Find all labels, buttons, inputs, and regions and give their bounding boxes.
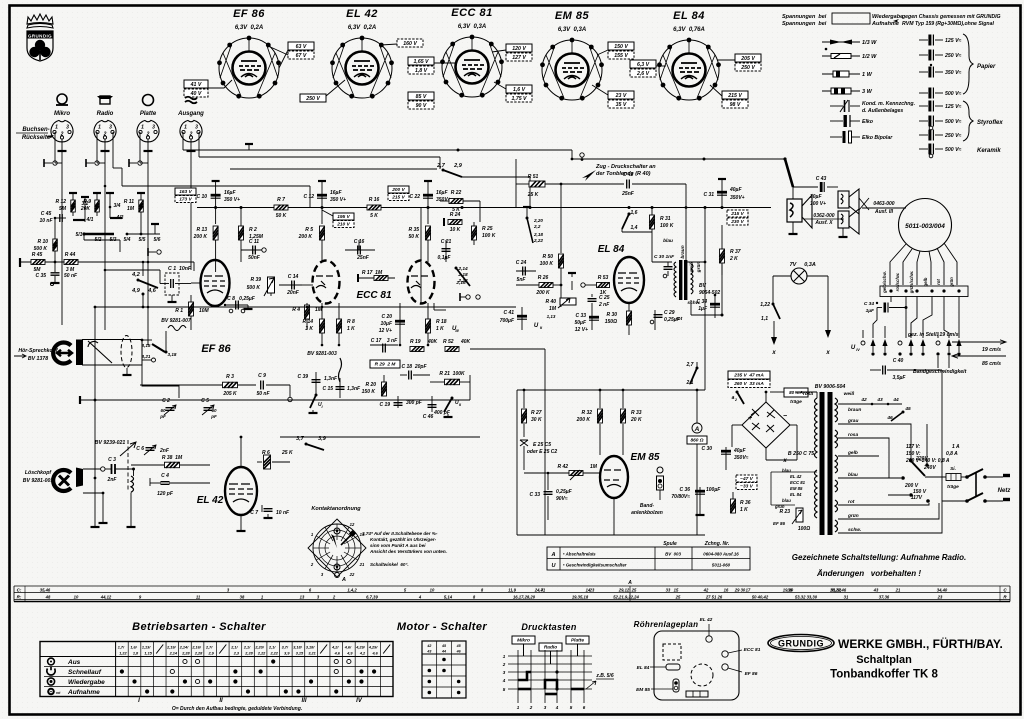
voltage box 163V/173V [175, 188, 196, 195]
icon Ausgang output [185, 97, 197, 104]
svg-text:C 22: C 22 [409, 194, 420, 200]
wire EM 85 to 150V box [597, 50, 608, 55]
resistor R42 1M [569, 471, 583, 476]
voltage boxes 120V/127V at ECC 81 [506, 44, 532, 52]
svg-text:R 16: R 16 [369, 197, 380, 203]
svg-text:EL 42: EL 42 [346, 8, 378, 20]
svg-text:R 19: R 19 [410, 339, 421, 345]
head Loeschkopf [53, 470, 71, 491]
svg-text:43: 43 [426, 650, 431, 654]
svg-text:4,2: 4,2 [359, 652, 366, 656]
svg-text:Ansicht des Verstärkers von un: Ansicht des Verstärkers von unten. [369, 549, 447, 554]
icon Platte record [143, 95, 154, 106]
svg-text:200 K: 200 K [576, 417, 591, 423]
legend Wiedergabe/Aufnahme box [832, 13, 870, 24]
socket Radio [94, 120, 116, 142]
svg-text:1M: 1M [127, 206, 135, 212]
capacitor C24 5nF [516, 270, 536, 272]
terminal on top bus [245, 144, 253, 150]
svg-text:1,65 V: 1,65 V [414, 59, 430, 65]
voltage box 63V/67V at EF 86 [288, 42, 314, 50]
bridge rectifier B250C75 [742, 402, 790, 448]
svg-text:3,74* Auf der II.Schaltebene d: 3,74* Auf der II.Schaltebene der %- [362, 531, 438, 536]
svg-text:31: 31 [844, 595, 849, 600]
capacitor C22 16uF 350V~ [427, 183, 429, 224]
svg-text:195 V: 195 V [337, 214, 350, 220]
svg-text:R 31: R 31 [660, 216, 671, 222]
resistor R50 100K [560, 184, 562, 253]
resistor R53 1K cathode EL84 [597, 283, 610, 288]
svg-text:2,28: 2,28 [181, 652, 190, 656]
ground at left speaker [792, 222, 794, 231]
Drucktasten button Platte [566, 636, 589, 644]
svg-text:gez. in Stell. 19 cm/s: gez. in Stell. 19 cm/s [907, 332, 959, 338]
resistor R2 1,25M [240, 208, 242, 263]
svg-text:4/1: 4/1 [86, 217, 94, 223]
svg-text:11,9: 11,9 [508, 588, 517, 593]
wire cathode bus y349 [470, 348, 545, 350]
svg-text:1,6/: 1,6/ [130, 646, 137, 650]
svg-text:52,21,9,22,24: 52,21,9,22,24 [613, 595, 639, 600]
svg-text:B 250 C 75: B 250 C 75 [788, 451, 814, 457]
svg-text:−47 V: −47 V [740, 476, 753, 482]
svg-text:3,7/: 3,7/ [282, 646, 289, 650]
wire Ausgang pin1 down [182, 132, 184, 150]
svg-text:125 V≈: 125 V≈ [945, 104, 962, 110]
svg-text:350V+: 350V+ [730, 195, 745, 201]
svg-text:C 40: C 40 [893, 358, 904, 364]
svg-text:1,22: 1,22 [119, 652, 127, 656]
Drucktasten thick contact traces [518, 672, 531, 680]
speaker left with coil [787, 195, 812, 228]
mains switch link [975, 473, 977, 497]
wire ECC 81 to 1,6V box [494, 82, 506, 89]
svg-text:BV 9006-504: BV 9006-504 [815, 384, 846, 390]
capacitor C33 0,25uF 90V~ [547, 473, 549, 490]
Roehrenlageplan chassis outline [654, 631, 739, 700]
svg-text:43: 43 [873, 588, 879, 593]
svg-text:2,9: 2,9 [453, 163, 463, 169]
output transformer BV 9054-502 [679, 260, 682, 300]
head core [76, 340, 83, 366]
legend capacitor 500 V~ Keramik [919, 144, 943, 155]
svg-text:350V+: 350V+ [436, 197, 451, 203]
svg-text:125 V≈: 125 V≈ [945, 38, 962, 44]
capacitor C14 20nF [279, 284, 302, 286]
svg-text:C 20: C 20 [381, 314, 392, 320]
svg-text:2: 2 [502, 662, 506, 667]
svg-text:25nF: 25nF [621, 191, 635, 197]
svg-text:EL 42: EL 42 [197, 495, 224, 506]
svg-text:0,8 A: 0,8 A [946, 451, 958, 457]
capacitor C4 120pF [149, 478, 151, 486]
wire mid bus y270 to C1 [105, 269, 160, 271]
svg-text:EF 86: EF 86 [773, 521, 786, 526]
speaker output III small [838, 209, 859, 234]
svg-text:BV 003: BV 003 [665, 552, 681, 557]
capacitor C1 10nF in shield box [165, 273, 179, 295]
svg-text:3,21: 3,21 [308, 652, 315, 656]
svg-text:Aus: Aus [67, 659, 81, 666]
svg-text:C 33: C 33 [575, 313, 586, 319]
svg-text:C 25: C 25 [599, 295, 610, 301]
svg-text:C 35: C 35 [35, 273, 46, 279]
svg-text:C 3: C 3 [108, 457, 116, 463]
voltage box -47V/-33V [736, 475, 757, 482]
svg-text:C 31: C 31 [703, 192, 714, 198]
svg-text:150Ω: 150Ω [605, 319, 617, 325]
svg-text:• Abschaltrelais: • Abschaltrelais [563, 552, 596, 557]
icon Radio speaker [97, 96, 113, 104]
secondary lead grau to 220V tap [838, 424, 911, 458]
svg-text:2,7/: 2,7/ [205, 646, 213, 650]
voltage boxes 215V/98V at EL 84 [722, 91, 748, 99]
resistor R9 20K [96, 196, 98, 216]
svg-text:16µF: 16µF [436, 190, 448, 196]
svg-text:33: 33 [666, 588, 671, 593]
svg-text:150 V: 150 V [614, 44, 628, 50]
svg-text:R 27: R 27 [531, 410, 542, 416]
svg-text:5/6: 5/6 [154, 237, 161, 243]
legend resistor 1 W [822, 71, 860, 77]
svg-text:23 V: 23 V [615, 93, 627, 99]
resistor R13 200K [213, 226, 218, 240]
svg-text:schw.: schw. [848, 527, 861, 533]
capacitor at Mikro lead [44, 159, 57, 167]
svg-text:44: 44 [892, 397, 899, 403]
svg-text:100 K: 100 K [482, 233, 496, 239]
capacitor C32 50uF 12V+ [591, 308, 593, 330]
svg-text:0604-080 Ausf.16: 0604-080 Ausf.16 [703, 552, 739, 557]
svg-text:Röhrenlageplan: Röhrenlageplan [634, 620, 699, 629]
resistor R1 10M cathode [190, 295, 192, 330]
svg-text:12 V+: 12 V+ [575, 327, 588, 333]
Drucktasten button Radio [539, 643, 562, 651]
svg-text:200 V: 200 V [391, 187, 405, 193]
svg-text:EF 86: EF 86 [745, 671, 758, 677]
svg-text:EF 86: EF 86 [201, 343, 231, 355]
wire transformer bottom rot lead [690, 300, 692, 315]
svg-text:Radio: Radio [544, 645, 557, 651]
erase head coil [131, 476, 134, 492]
wire second bus y169 [199, 156, 440, 158]
svg-text:48: 48 [45, 595, 51, 600]
svg-text:C 36: C 36 [679, 487, 690, 493]
svg-text:29,12: 29,12 [618, 588, 630, 593]
svg-text:C 17: C 17 [371, 338, 382, 344]
capacitor C19 300pF [397, 396, 399, 408]
svg-text:1,8: 1,8 [133, 652, 139, 656]
svg-text:Band-: Band- [640, 503, 655, 509]
capacitor C39 1,3nF [315, 372, 317, 395]
svg-text:40µF: 40µF [729, 187, 742, 193]
icon Mikro microphone [56, 94, 68, 105]
legend resistor 1/2 W [822, 54, 860, 59]
legend capacitor 125 V~ Styroflex [919, 101, 943, 112]
svg-text:BV: BV [699, 283, 707, 289]
wire Ausgang pin2 down [190, 152, 192, 270]
svg-text:R 1: R 1 [175, 308, 183, 314]
resistor R16 5K on bus [367, 205, 381, 210]
voltage box 235V 47mA / 260V 33mA [728, 371, 770, 379]
legend capacitor 125 V~ Papier [919, 35, 943, 46]
voltage box 41V/40V at EF 86 [184, 80, 208, 88]
svg-text:15: 15 [674, 588, 679, 593]
svg-text:A: A [694, 426, 700, 433]
svg-text:41 V: 41 V [190, 82, 202, 88]
svg-text:R 30: R 30 [606, 312, 617, 318]
transformer primary winding [815, 398, 818, 458]
svg-text:R 35: R 35 [408, 227, 419, 233]
svg-text:GRUNDIG: GRUNDIG [778, 639, 824, 649]
svg-text:50µF: 50µF [575, 320, 587, 326]
wire power section bottom bus y535 [517, 534, 705, 536]
svg-text:ECC 81: ECC 81 [744, 647, 761, 653]
svg-text:3: 3 [152, 125, 155, 131]
capacitor C29 0,25uF [654, 310, 656, 330]
svg-text:1,13/: 1,13/ [142, 646, 151, 650]
wire x95 vertical long [94, 307, 96, 524]
Roehrenlageplan ECC81 pin [722, 651, 728, 657]
capacitor C43 30uF 100V~ [793, 186, 818, 188]
svg-text:2,20: 2,20 [533, 218, 543, 223]
strip lead weave wires [905, 297, 907, 339]
resistor R5 200K [320, 226, 325, 240]
svg-text:50 nF: 50 nF [64, 273, 78, 279]
table connection dots [183, 659, 187, 663]
svg-text:23: 23 [937, 595, 943, 600]
svg-text:20nF: 20nF [286, 290, 300, 296]
Band-anlenkbolzen symbol [657, 467, 663, 473]
svg-text:50 40,42: 50 40,42 [752, 595, 769, 600]
svg-text:EL 42: EL 42 [790, 474, 802, 479]
svg-text:17: 17 [746, 588, 751, 593]
table Motor-Schalter [422, 641, 466, 698]
heater wires left of transformer [771, 471, 817, 473]
capacitor C25 2nF [588, 299, 597, 302]
wire EL42 anode up [240, 437, 242, 467]
resistor R32 200K [599, 390, 601, 408]
svg-text:BV 9281-007: BV 9281-007 [161, 318, 191, 324]
svg-text:R 42: R 42 [557, 464, 568, 470]
svg-text:500 V≈: 500 V≈ [945, 147, 962, 153]
svg-text:215 V: 215 V [730, 211, 744, 217]
transformer primary feed [816, 392, 818, 398]
resistor R33 20K [622, 390, 624, 408]
svg-text:85 cm/s: 85 cm/s [982, 361, 1001, 367]
svg-text:C 5: C 5 [201, 398, 209, 404]
svg-text:R 10: R 10 [37, 239, 48, 245]
svg-text:860 Ω: 860 Ω [690, 438, 703, 444]
svg-text:2,19/: 2,19/ [166, 646, 176, 650]
tap 117V [926, 499, 930, 503]
svg-text:1/2 W: 1/2 W [862, 54, 877, 60]
svg-text:weiß: weiß [689, 262, 695, 273]
resistor R37 2K [721, 225, 723, 275]
resistor R20 150K [383, 375, 385, 382]
socket Platte [137, 120, 159, 142]
table Betriebsarten-Schalter [40, 642, 393, 697]
svg-text:C 1 10nF: C 1 10nF [168, 266, 192, 272]
svg-text:pF: pF [210, 414, 217, 419]
svg-text:205 V: 205 V [740, 56, 755, 62]
svg-text:235 V 47 mA: 235 V 47 mA [733, 373, 764, 379]
svg-text:53,32 33,30: 53,32 33,30 [795, 595, 818, 600]
terminal dots in strip [889, 289, 892, 292]
svg-text:6,3V 0,3A: 6,3V 0,3A [458, 24, 486, 30]
svg-text:3,9: 3,9 [284, 652, 290, 656]
svg-text:4: 4 [502, 678, 506, 683]
resistor R44 3M [64, 260, 78, 265]
svg-text:Spule: Spule [663, 541, 677, 547]
svg-text:4,2: 4,2 [131, 272, 140, 278]
svg-text:C 19: C 19 [379, 402, 390, 408]
switch a2 power [736, 391, 745, 405]
svg-text:A: A [341, 577, 346, 583]
svg-text:1M: 1M [590, 464, 598, 470]
potentiometer R40 1M [560, 298, 576, 305]
svg-text:50nF: 50nF [248, 255, 261, 261]
resistor R11 1M [140, 196, 142, 234]
svg-text:C 2: C 2 [162, 398, 170, 404]
capacitor C15 1,3nF [339, 378, 341, 398]
wire bus y400 [80, 399, 470, 401]
svg-text:3,18/: 3,18/ [293, 646, 302, 650]
Roehrenlageplan EM85 slot [673, 679, 679, 692]
svg-text:2: 2 [734, 398, 737, 402]
svg-text:Schaltplan: Schaltplan [856, 654, 912, 666]
capacitor C30 40uF 350V~ [721, 450, 731, 454]
svg-text:1 K: 1 K [436, 326, 444, 332]
svg-text:700µF: 700µF [500, 318, 515, 324]
ground at Platte socket [147, 139, 149, 147]
svg-text:16µF: 16µF [224, 190, 236, 196]
svg-text:44,12: 44,12 [100, 595, 112, 600]
tube ECC 81 triode a envelope [313, 261, 340, 304]
svg-text:blau: blau [663, 238, 673, 244]
motor lead wires [890, 244, 906, 285]
svg-text:R:: R: [17, 595, 22, 600]
ring terminal on right bus [580, 153, 584, 157]
svg-text:0463-000: 0463-000 [873, 201, 894, 207]
svg-text:weiß: weiß [844, 391, 855, 397]
svg-text:R 50: R 50 [542, 254, 553, 260]
svg-text:Zchng. Nr.: Zchng. Nr. [704, 541, 729, 547]
svg-text:grün/schw.: grün/schw. [909, 271, 914, 295]
svg-text:1,1: 1,1 [761, 316, 768, 322]
svg-text:Buchsen-: Buchsen- [22, 127, 49, 133]
svg-text:R 21 100K: R 21 100K [439, 371, 465, 377]
resistor R22 5K [449, 199, 463, 204]
svg-text:ECC 81: ECC 81 [451, 7, 493, 19]
legend capacitor 250 V~ Papier [919, 50, 943, 61]
capacitor C46 400pF [431, 396, 433, 412]
svg-text:35,46: 35,46 [40, 588, 51, 593]
svg-text:Netz: Netz [998, 488, 1011, 494]
transformer secondary winding [835, 398, 838, 532]
svg-text:x: x [771, 350, 776, 356]
svg-text:25nF: 25nF [356, 255, 370, 261]
head tuning core dashed [121, 336, 132, 368]
resistor R35 50K [426, 226, 431, 240]
svg-text:127 V: 127 V [512, 55, 526, 61]
svg-text:42: 42 [426, 644, 431, 648]
svg-text:120 pF: 120 pF [157, 491, 174, 497]
svg-text:260 V 33 mA: 260 V 33 mA [733, 381, 764, 387]
svg-text:Kontaktanordnung: Kontaktanordnung [311, 506, 361, 512]
svg-text:C 39: C 39 [297, 374, 308, 380]
svg-text:C 18 20pF: C 18 20pF [401, 364, 427, 370]
Roehrenlageplan EL42 pin [706, 636, 712, 642]
svg-text:4,9: 4,9 [346, 652, 353, 656]
contact wheel diagram [308, 519, 366, 583]
svg-text:2,28: 2,28 [194, 652, 203, 656]
svg-text:EL 84: EL 84 [637, 665, 650, 671]
capacitor C11 50nF [241, 249, 262, 251]
svg-text:16µF: 16µF [330, 190, 342, 196]
svg-text:R 3: R 3 [226, 374, 234, 380]
svg-text:R 20: R 20 [365, 382, 376, 388]
svg-text:A: A [551, 552, 556, 558]
voltage boxes 150V/155V at EM 85 [608, 42, 634, 50]
svg-text:13: 13 [300, 595, 305, 600]
svg-text:10 K: 10 K [450, 227, 461, 233]
svg-text:R 17 1M: R 17 1M [362, 270, 383, 276]
svg-text:Papier: Papier [977, 64, 996, 70]
svg-text:6,3V 0,2A: 6,3V 0,2A [348, 25, 376, 31]
svg-text:3: 3 [66, 125, 69, 131]
svg-text:205 K: 205 K [222, 391, 237, 397]
svg-text:R 9: R 9 [83, 199, 91, 205]
svg-text:2 nF: 2 nF [598, 302, 610, 308]
wire EL 42 to 250V box [326, 80, 345, 96]
svg-text:C 21: C 21 [441, 239, 452, 245]
svg-text:C 15: C 15 [322, 386, 333, 392]
wire riser x516 [515, 159, 517, 208]
relay A circled [692, 423, 702, 433]
svg-text:träge: träge [790, 399, 802, 405]
svg-text:EL 84: EL 84 [673, 10, 705, 22]
svg-text:43: 43 [876, 397, 883, 403]
arrow contact x left [773, 321, 775, 337]
svg-text:200 K: 200 K [193, 234, 208, 240]
svg-text:Platte: Platte [571, 638, 584, 644]
svg-text:1 K: 1 K [347, 326, 355, 332]
svg-text:10: 10 [74, 595, 79, 600]
svg-text:R 52: R 52 [443, 339, 454, 345]
svg-text:100Ω: 100Ω [798, 526, 810, 532]
resistor R24 10K [448, 220, 462, 225]
capacitor at Radio lead [86, 159, 99, 167]
svg-text:C 10: C 10 [196, 194, 207, 200]
svg-text:10 nF: 10 nF [276, 510, 290, 516]
svg-text:215 V: 215 V [727, 93, 742, 99]
svg-text:C 14: C 14 [288, 274, 299, 280]
wire transformer secondary to speakers [687, 261, 705, 263]
svg-text:4,6: 4,6 [371, 652, 378, 656]
fuse Si traege [925, 476, 946, 478]
capacitor C8 0,25uF [225, 304, 248, 306]
capacitor C3 2nF [101, 467, 105, 471]
svg-text:BV 9281-001: BV 9281-001 [23, 478, 54, 484]
wire EF 86 grid left [191, 282, 200, 284]
svg-text:R 7: R 7 [277, 197, 285, 203]
svg-text:1: 1 [184, 125, 187, 131]
svg-text:Aufnahme: Aufnahme [67, 689, 100, 696]
table row icons and labels [47, 658, 105, 696]
capacitor C34 1uF [714, 295, 716, 318]
svg-text:Mikro: Mikro [517, 638, 530, 644]
